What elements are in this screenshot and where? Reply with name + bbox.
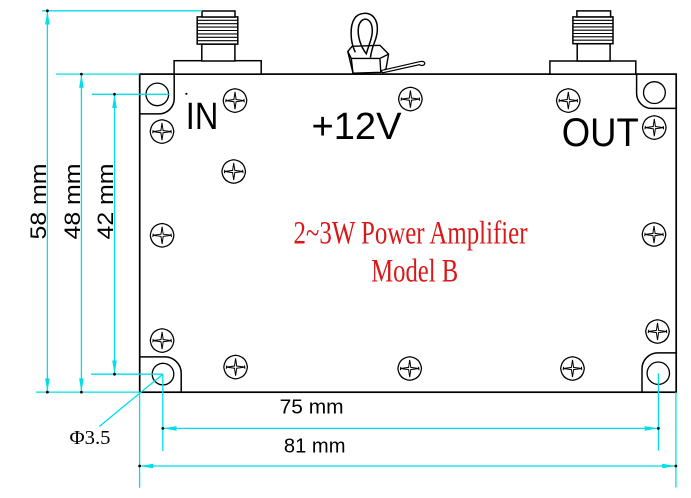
screw A12 <box>398 357 422 381</box>
SMA connector IN: top cap <box>202 11 235 17</box>
svg-text:OUT: OUT <box>562 111 639 155</box>
screw A10 <box>646 320 670 344</box>
screw A4 <box>557 89 581 113</box>
+12V lead wire to right <box>381 61 425 72</box>
SMA connector IN: flange <box>174 61 261 74</box>
screw A7 <box>150 224 174 248</box>
svg-text:Φ3.5: Φ3.5 <box>70 427 111 449</box>
svg-text:2~3W Power Amplifier: 2~3W Power Amplifier <box>294 215 528 251</box>
screw A8 <box>642 223 666 247</box>
bottom extension line left <box>36 391 140 393</box>
screw A1 <box>150 120 174 144</box>
screw A13 <box>561 357 585 381</box>
corner tab top-right <box>637 74 677 108</box>
arrow 81 left <box>140 464 154 469</box>
dim 58mm top extension <box>42 10 202 12</box>
arrow 42 top <box>112 94 117 108</box>
SMA connector OUT: threads <box>573 20 613 40</box>
svg-text:58 mm: 58 mm <box>26 164 51 240</box>
arrow 75 left <box>163 426 177 431</box>
dim 58mm vertical line <box>46 11 48 392</box>
corner tab bottom-right <box>642 353 676 392</box>
arrow 48 top <box>79 74 84 88</box>
corner hole bottom-right <box>647 362 669 384</box>
dim 42mm bottom extension <box>91 373 163 375</box>
SMA connector OUT: top cap <box>577 11 611 17</box>
amplifier body outline <box>140 74 677 392</box>
corner hole top-left <box>146 83 169 106</box>
dim 81mm right extension <box>675 392 677 487</box>
svg-text:Model B: Model B <box>371 254 458 290</box>
SMA connector OUT: threaded body <box>573 17 613 44</box>
dim 75mm left extension <box>162 374 164 451</box>
screw A11 <box>224 355 248 379</box>
+12V wire loop <box>351 13 377 57</box>
screw A5 <box>643 116 667 140</box>
dim 75mm line <box>163 427 659 429</box>
+12V feed-through terminal block <box>348 45 389 73</box>
svg-text:48 mm: 48 mm <box>60 164 85 240</box>
svg-text:75 mm: 75 mm <box>280 396 344 419</box>
dim 48mm vertical line <box>80 74 82 392</box>
svg-text:81 mm: 81 mm <box>284 435 346 458</box>
corner tab top-left <box>140 74 175 114</box>
screw A6 <box>222 160 246 184</box>
dim 81mm left extension <box>139 392 141 488</box>
dim 42mm vertical line <box>114 94 116 374</box>
arrow 75 right <box>645 426 659 431</box>
svg-text:IN: IN <box>186 96 219 138</box>
dim 75mm right extension <box>657 373 659 451</box>
SMA connector IN: neck <box>202 44 235 61</box>
svg-text:42 mm: 42 mm <box>93 164 118 240</box>
leader line dia 3.5 <box>99 374 163 426</box>
screw A9 <box>150 329 174 353</box>
dim 81mm line <box>140 465 676 467</box>
arrow 81 right <box>662 464 676 469</box>
dim 42mm top extension <box>92 93 169 95</box>
arrow 48 bottom <box>79 378 84 392</box>
svg-text:+12V: +12V <box>312 106 403 148</box>
SMA connector IN: threads <box>197 20 238 40</box>
arrow 42 bottom <box>112 361 117 375</box>
corner hole bottom-left <box>152 363 174 385</box>
SMA connector OUT: neck <box>577 44 610 61</box>
screw A2 <box>223 89 247 113</box>
corner hole top-right <box>644 82 666 104</box>
SMA connector IN: threaded body <box>197 17 238 44</box>
corner tab bottom-left <box>140 357 182 392</box>
SMA connector OUT: flange <box>550 61 636 74</box>
screw A3 <box>399 87 423 111</box>
arrow 58 bottom <box>45 378 50 392</box>
dim 48mm top extension <box>56 73 140 75</box>
arrow 58 top <box>45 11 50 25</box>
